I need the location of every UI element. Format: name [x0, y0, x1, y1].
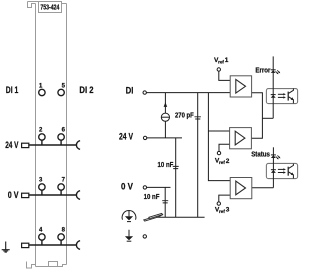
svg-text:ref: ref [218, 59, 224, 64]
current source stem lower [164, 121, 166, 138]
bottom foot profile [36, 265, 67, 267]
Vref3 terminal circle [217, 202, 220, 205]
0V terminal circle [143, 186, 146, 189]
jog to opto1 [262, 117, 273, 119]
earth row wire [29, 240, 77, 245]
terminal circle 2 [39, 134, 45, 140]
terminal circle 6 [58, 134, 64, 140]
current source diameter line [161, 116, 169, 118]
opto2 phototransistor [287, 167, 289, 176]
protective earth symbol [2, 242, 10, 253]
circled earth arrow [122, 210, 136, 221]
Status LED [271, 154, 276, 156]
current source arrowhead [164, 102, 168, 107]
Vref3 wire [219, 195, 230, 202]
svg-text:Status: Status [251, 150, 270, 159]
svg-text:2: 2 [226, 158, 230, 165]
top-left notch [28, 2, 39, 8]
Vref1 terminal circle [217, 68, 220, 71]
optocoupler box 1 [266, 89, 297, 104]
amp3 output wire [252, 187, 274, 189]
terminal circle 8 [58, 234, 64, 240]
svg-text:270 pF: 270 pF [175, 111, 194, 120]
Error LED chain line [272, 56, 274, 118]
Vref2 terminal circle [217, 151, 220, 154]
DI terminal circle [143, 91, 146, 94]
0V clamp hook [76, 191, 80, 200]
terminal circle 4 [39, 234, 45, 240]
svg-text:24 V: 24 V [5, 140, 19, 150]
opto1 LED [271, 94, 276, 96]
svg-text:24 V: 24 V [119, 131, 134, 141]
svg-text:DI: DI [126, 86, 134, 96]
svg-text:0 V: 0 V [8, 190, 19, 200]
terminal circle 1 [39, 89, 45, 95]
svg-text:DI 1: DI 1 [6, 85, 19, 95]
op-amp U3 box [230, 178, 252, 199]
10nF line lower [164, 187, 166, 217]
Status LED chain line [272, 147, 274, 187]
op-amp U2 triangle [235, 131, 245, 145]
svg-text:10 nF: 10 nF [144, 192, 160, 201]
opto2 LED [271, 169, 276, 171]
ground bus [157, 216, 204, 218]
24V clamp hook [76, 141, 80, 150]
branch line to comparators [208, 93, 230, 181]
earth wire entry box [22, 243, 29, 247]
svg-text:3: 3 [226, 207, 230, 214]
amp1 output wire [251, 93, 262, 138]
svg-text:1: 1 [225, 57, 229, 64]
bottom-left bracket [27, 262, 36, 269]
opto1 phototransistor [287, 92, 289, 101]
capacitor 10nF lower [162, 201, 168, 203]
branch to amp2 [208, 130, 229, 132]
svg-text:DI 2: DI 2 [79, 85, 93, 95]
Vref1 wire [219, 71, 230, 80]
current source circle [161, 113, 169, 121]
Vref2 wire [219, 144, 230, 151]
DI wire [146, 92, 230, 94]
earth terminal circle [143, 235, 146, 238]
terminal circle 5 [58, 89, 64, 95]
24V wire [147, 137, 182, 139]
right edge [66, 4, 68, 265]
bottom middle notch [49, 262, 58, 267]
opto1 coupling arrows [278, 93, 286, 99]
svg-text:0 V: 0 V [121, 181, 134, 191]
0V row wire [29, 190, 77, 195]
order-number label box [39, 2, 62, 13]
earth clamp hook [76, 241, 80, 250]
10nF line upper [175, 138, 177, 218]
DIN rail symbol [144, 213, 163, 221]
svg-text:ref: ref [219, 209, 225, 214]
svg-text:10 nF: 10 nF [158, 160, 174, 169]
Error LED [271, 69, 276, 71]
field earth arrow [127, 230, 132, 241]
capacitor 10nF upper [173, 166, 179, 168]
current source stem upper [164, 93, 166, 113]
module outline [27, 2, 67, 269]
svg-text:ref: ref [219, 160, 225, 165]
op-amp U3 triangle [236, 181, 246, 195]
24V terminal circle [143, 136, 146, 139]
24V row wire [29, 140, 77, 145]
Status LED emission arrows [276, 155, 281, 159]
terminal circle 7 [58, 184, 64, 190]
270pF line [197, 93, 199, 218]
op-amp U1 box [230, 76, 251, 97]
Error LED emission arrows [276, 70, 281, 74]
0V wire [147, 186, 171, 188]
opto2 coupling arrows [278, 168, 286, 174]
0V wire entry box [22, 193, 29, 197]
terminal circle 3 [39, 184, 45, 190]
op-amp U2 box [230, 128, 252, 149]
svg-text:Error: Error [255, 66, 270, 75]
capacitor 270pF [195, 117, 201, 119]
op-amp U1 triangle [236, 79, 246, 93]
24V wire entry box [22, 143, 29, 147]
top edge right of label box [62, 3, 67, 5]
left edge [35, 4, 37, 267]
optocoupler box 2 [266, 163, 297, 178]
svg-text:753-424: 753-424 [40, 5, 59, 12]
